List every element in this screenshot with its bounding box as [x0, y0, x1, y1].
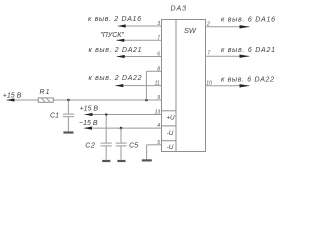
capacitor C5 [116, 128, 127, 160]
svg-text:-U: -U [167, 144, 174, 151]
wire +15V rail to pin 9 [6, 99, 38, 101]
svg-text:C1: C1 [50, 113, 59, 120]
svg-text:5: 5 [157, 140, 160, 146]
wire pin 11 [115, 85, 161, 87]
wire pin 8 vertical branch [145, 71, 147, 100]
junction C2 on +15V rail [105, 113, 108, 116]
arrow to DA16 (left) [118, 24, 126, 27]
svg-text:к выв. 6 DA22: к выв. 6 DA22 [221, 76, 274, 83]
wire -15V to pin 4 [84, 127, 162, 129]
wire +15V to pin 13 [85, 114, 162, 116]
svg-text:11: 11 [155, 81, 160, 87]
svg-text:R1: R1 [40, 89, 50, 96]
capacitor C2 [101, 115, 112, 160]
svg-text:C2: C2 [85, 143, 95, 150]
svg-text:+15 В: +15 В [3, 93, 22, 100]
ground under C5 [117, 160, 125, 162]
arrow to DA22 (left) [115, 84, 123, 87]
svg-text:SW: SW [184, 26, 197, 35]
svg-text:+U: +U [166, 114, 175, 121]
svg-text:8: 8 [157, 66, 160, 72]
svg-text:к выв. 2 DA21: к выв. 2 DA21 [89, 47, 142, 54]
wire pin 5 to ground [147, 145, 162, 160]
svg-text:DA3: DA3 [171, 6, 187, 13]
ground under C1 [63, 131, 73, 133]
svg-text:4: 4 [157, 123, 160, 129]
svg-text:C5: C5 [129, 142, 138, 149]
wire pin 7 (ПУСК) [116, 39, 161, 41]
svg-text:−15 В: −15 В [79, 120, 98, 127]
svg-text:6: 6 [157, 52, 160, 58]
svg-text:+15 В: +15 В [80, 105, 99, 112]
svg-text:7: 7 [157, 35, 160, 41]
arrow to DA22 (right) [240, 84, 250, 87]
svg-text:к выв. 6 DA16: к выв. 6 DA16 [221, 17, 275, 24]
arrow -15 V [84, 127, 92, 130]
svg-text:к выв. 6 DA21: к выв. 6 DA21 [221, 47, 275, 54]
wire pin 7 (right) [206, 55, 250, 57]
svg-text:к выв. 2 DA22: к выв. 2 DA22 [89, 75, 142, 82]
junction C5 on -15V rail [120, 127, 123, 130]
svg-text:10: 10 [206, 80, 212, 86]
wire pin 2 (right) [206, 26, 250, 28]
resistor R1 [38, 98, 53, 102]
arrow +15 V (mid) [85, 113, 93, 116]
capacitor C1 [63, 100, 74, 131]
svg-text:9: 9 [157, 95, 160, 101]
arrow to DA16 (right) [240, 25, 250, 28]
arrow to DA21 (left) [117, 55, 125, 58]
svg-text:-U: -U [167, 130, 174, 137]
svg-text:"ПУСК": "ПУСК" [100, 32, 124, 39]
svg-text:13: 13 [155, 110, 161, 116]
arrow to DA21 (right) [240, 55, 250, 58]
wire pin 10 (right) [206, 85, 250, 87]
svg-text:2: 2 [206, 21, 210, 27]
wire pin 8 stub [146, 70, 161, 72]
svg-text:7: 7 [207, 51, 210, 57]
ground under pin 5 [142, 159, 152, 161]
arrow ПУСК (left) [116, 39, 124, 42]
ground under C2 [102, 160, 110, 162]
IC DA3 body [162, 20, 206, 152]
wire pin 6 [117, 56, 162, 58]
svg-text:к выв. 2 DA16: к выв. 2 DA16 [88, 16, 141, 23]
junction pin8 branch [145, 99, 148, 102]
junction C1/pin9 rail [67, 99, 70, 102]
arrow +15 V (far left) [6, 98, 14, 101]
svg-text:3: 3 [157, 21, 160, 27]
wire pin 3 [118, 25, 162, 27]
